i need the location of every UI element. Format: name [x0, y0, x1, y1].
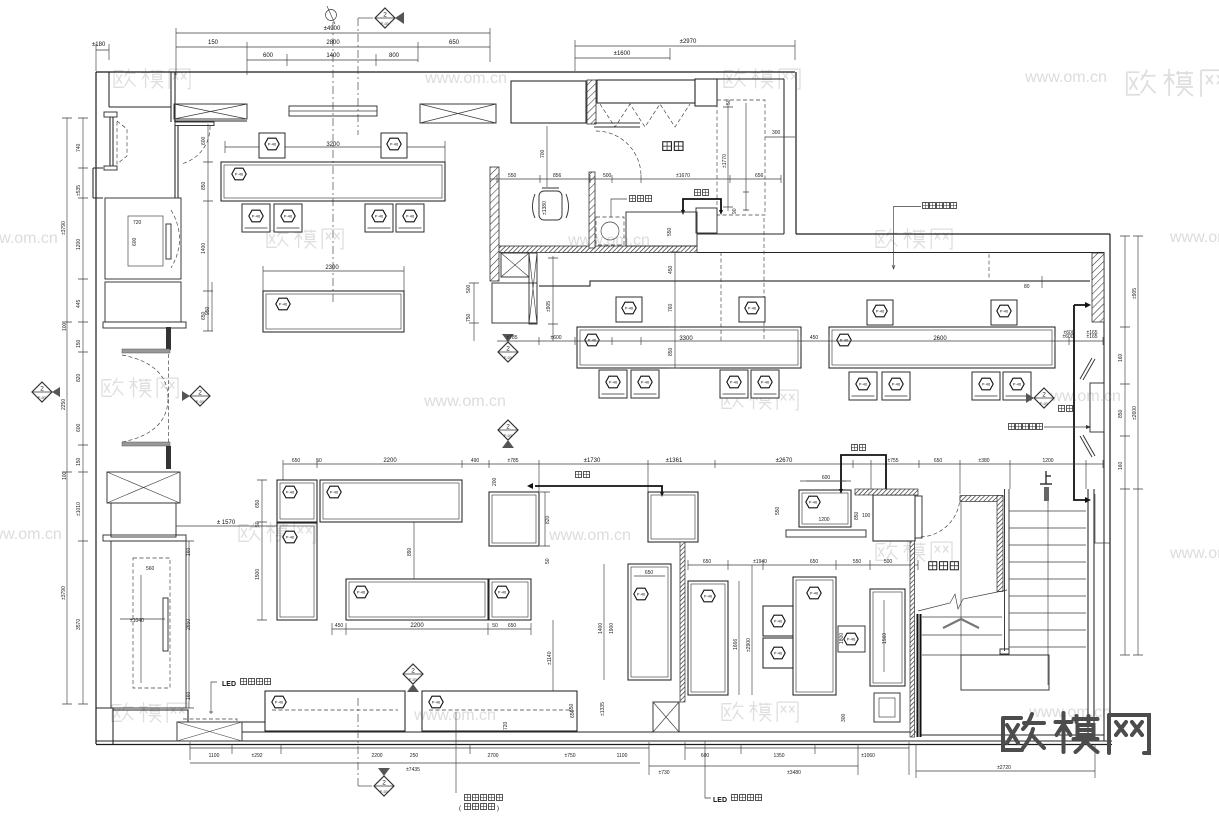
svg-text:±2970: ±2970 [680, 39, 697, 45]
storage room label [929, 562, 959, 570]
hexagon tag mid [276, 298, 290, 310]
svg-text:±3480: ±3480 [787, 770, 801, 776]
svg-text:650: 650 [292, 458, 301, 464]
mid display table [263, 291, 404, 332]
washbasin circle [601, 222, 619, 240]
svg-text:1400: 1400 [326, 53, 340, 59]
svg-text:720: 720 [133, 220, 142, 226]
label LED screen right [713, 795, 762, 805]
pilaster bar top-left [104, 112, 117, 117]
tall cabinet c3 [870, 589, 905, 686]
svg-text:www.om.cn: www.om.cn [0, 230, 58, 247]
svg-text:±3790: ±3790 [61, 221, 67, 235]
elevator door bar [166, 224, 171, 259]
svg-text:850: 850 [668, 347, 674, 356]
svg-text:100: 100 [62, 322, 68, 331]
counter under fitting [626, 212, 697, 246]
stair top hatch band [960, 496, 1003, 502]
chair below r1 b [274, 204, 302, 232]
svg-text:890: 890 [407, 547, 413, 556]
svg-text:±1730: ±1730 [584, 458, 601, 464]
svg-text:1100: 1100 [209, 753, 220, 759]
door jamb black lower [166, 446, 171, 469]
dim 3200 line [225, 141, 445, 162]
wall top outer [96, 71, 795, 73]
wall right-wing top outer [796, 233, 1110, 235]
svg-text:www.om.cn: www.om.cn [423, 393, 506, 410]
section marker bottom [358, 698, 394, 796]
svg-text:90: 90 [732, 208, 738, 214]
stair handrail [1000, 489, 1009, 654]
dashed tall display [133, 558, 170, 688]
X block bottom wall [177, 722, 242, 741]
svg-text:100: 100 [862, 513, 871, 519]
svg-text:560: 560 [146, 566, 155, 572]
svg-text:150: 150 [76, 339, 82, 348]
dim vertical fitting right [743, 103, 749, 211]
svg-text:±2670: ±2670 [776, 458, 793, 464]
wall fitting-room right outer [795, 72, 797, 234]
door leaf upper [122, 349, 170, 353]
cabinet lower plain [111, 503, 176, 537]
bracket arrow top [1085, 302, 1091, 308]
X column bottom [653, 702, 679, 732]
svg-text:100: 100 [62, 471, 68, 480]
stacked square s1 [763, 606, 793, 636]
svg-text:www.om.cn: www.om.cn [1169, 545, 1219, 562]
square display b6 [489, 579, 531, 620]
dim 820 rot [540, 492, 551, 546]
svg-text:445: 445 [76, 299, 82, 308]
svg-text:±1600: ±1600 [614, 51, 631, 57]
svg-text:): ) [497, 806, 499, 812]
svg-text:650: 650 [934, 458, 943, 464]
hexagon tag tableA [585, 334, 599, 346]
chair above r2 b [739, 297, 765, 322]
label xishuicao [630, 196, 652, 202]
dim 1560 rot [882, 600, 888, 672]
svg-text:±292: ±292 [251, 753, 262, 759]
svg-text:1400: 1400 [201, 243, 207, 254]
svg-text:800: 800 [389, 53, 400, 59]
wall left inner strip [110, 117, 113, 166]
chair above r1 a [259, 133, 285, 158]
hexagon tag left tall [634, 588, 648, 600]
chair above r2 c [867, 300, 893, 325]
dim 2900 rot [746, 565, 752, 695]
shelf diagonal lower [1080, 435, 1095, 457]
shelf below hatch [594, 123, 640, 127]
wall bottom inner [96, 740, 1112, 742]
marker diamond left1 [32, 382, 60, 402]
watermark ou-mo-wang row1 left [114, 68, 190, 89]
svg-text:2200: 2200 [383, 458, 397, 464]
direction chevron [943, 619, 979, 628]
dim row3 line [247, 54, 418, 66]
dim lineD y769 [649, 744, 858, 775]
svg-text:750: 750 [466, 313, 472, 322]
label jiugui right [852, 445, 866, 451]
cabinet ledge [103, 322, 186, 328]
section line top dashdot [357, 18, 359, 135]
big square cabinet [648, 492, 698, 542]
svg-text:50: 50 [726, 99, 732, 105]
cabinet P17 [799, 490, 851, 527]
svg-text:±755: ±755 [887, 458, 898, 464]
bracket arrows [681, 210, 723, 215]
wall left outer [95, 72, 97, 744]
svg-text:600: 600 [263, 53, 274, 59]
svg-text:850: 850 [854, 511, 860, 520]
svg-text:650: 650 [569, 703, 575, 712]
dim line y464 [283, 460, 1103, 494]
stair right rail [1088, 489, 1094, 740]
fitting dim vertical [723, 103, 733, 211]
svg-text:±2720: ±2720 [997, 765, 1011, 771]
square display b4 [489, 492, 539, 546]
svg-text:50: 50 [255, 521, 261, 527]
dim line x553 [548, 256, 558, 341]
break line [918, 590, 1007, 611]
svg-text:450: 450 [668, 265, 674, 274]
marker diamond mid 2 [498, 420, 518, 448]
centreline dashdot [332, 22, 334, 302]
chair below r2 e [849, 372, 877, 400]
label dengguang cabinet [1009, 424, 1043, 430]
chair above r2 d [991, 300, 1017, 325]
dim chain x1138 [1133, 236, 1143, 655]
wall bottom stair line [920, 734, 1104, 736]
svg-text:740: 740 [76, 143, 82, 152]
svg-text:550: 550 [853, 559, 862, 565]
svg-text:LED: LED [713, 797, 727, 804]
svg-text:1200: 1200 [818, 517, 829, 523]
svg-text:±7435: ±7435 [406, 767, 420, 773]
door leaf lower [122, 442, 170, 446]
svg-text:80: 80 [1024, 284, 1030, 290]
hexagon tag c2 [807, 587, 821, 599]
svg-text:490: 490 [471, 458, 480, 464]
svg-text:±785: ±785 [506, 335, 517, 341]
box P46 upper [277, 480, 317, 522]
chair below r2 d [751, 370, 779, 398]
chair below r2 c [720, 370, 748, 398]
storage closet [873, 495, 915, 541]
chain x67 [62, 118, 72, 704]
svg-text:www.om.cn: www.om.cn [0, 526, 62, 543]
stair treads lower left [922, 617, 1049, 655]
marker diamond B [403, 664, 423, 692]
svg-text:1900: 1900 [609, 623, 615, 634]
watermark ou-mo-wang row3 a [102, 377, 178, 398]
label xiegui [695, 190, 709, 196]
svg-text:650: 650 [508, 623, 517, 629]
svg-text:650: 650 [645, 570, 654, 576]
X column small [501, 253, 529, 277]
stair landing box [961, 655, 1049, 690]
svg-text:1800: 1800 [839, 633, 845, 644]
label display stand example [459, 795, 503, 813]
dim 650 in cabinet [634, 570, 665, 576]
wall fitting bottom edge [697, 233, 784, 235]
svg-text:160: 160 [1118, 461, 1124, 470]
dim chain x262 [257, 480, 267, 620]
svg-text:(: ( [459, 806, 461, 812]
svg-text:600: 600 [822, 475, 831, 481]
svg-text:650: 650 [449, 40, 460, 46]
svg-text:550: 550 [508, 173, 517, 179]
hexagon tag tableB [837, 334, 851, 346]
svg-text:3570: 3570 [76, 619, 82, 630]
door arc top-left entrance [181, 126, 210, 164]
tall cabinet c1 [688, 581, 728, 695]
dim 2300 line [263, 266, 404, 291]
svg-text:820: 820 [76, 373, 82, 382]
big logo ou-mo-wang [1003, 713, 1149, 753]
label huanxie room [663, 142, 683, 151]
svg-text:±785: ±785 [507, 458, 518, 464]
svg-text:300: 300 [772, 130, 781, 136]
hexagon tag b6 [495, 586, 509, 598]
dashed LED strip [183, 719, 237, 723]
leader display stand [455, 712, 457, 793]
svg-text:50: 50 [545, 558, 551, 564]
hexagon tag table1 [232, 168, 246, 180]
display table B [829, 327, 1055, 368]
X-cabinet upper [107, 472, 180, 503]
centreline symbol CL [326, 6, 337, 24]
dim 1140 rot [547, 620, 553, 691]
left dim chain x208 [203, 124, 213, 331]
X-block top 2 [420, 104, 496, 123]
watermark ou-mo-wang row2 a [267, 228, 343, 249]
svg-text:300: 300 [841, 713, 847, 722]
cabinet below elevator [105, 282, 181, 322]
wall display box [1090, 383, 1104, 432]
shelf top between [289, 106, 377, 116]
wall left inner upper [109, 72, 175, 122]
dashed opening marker [988, 254, 990, 280]
closet hatch top [855, 489, 918, 495]
long display b5 [346, 579, 488, 620]
dim 300 [765, 130, 795, 137]
wine cabinet bracket right [839, 455, 888, 494]
hatched wall column fitting left upper [587, 80, 596, 124]
hexagon tag b1 [283, 486, 297, 498]
dim row y341 [497, 337, 1103, 345]
dim vert x675 [670, 252, 680, 368]
svg-text:720: 720 [503, 721, 509, 730]
svg-text:±1361: ±1361 [666, 458, 683, 464]
marker diamond left2 [182, 386, 210, 406]
dashed vert x764 [763, 218, 765, 341]
chair below r2 h [1003, 372, 1031, 400]
long display b2 [320, 480, 462, 522]
svg-text:550: 550 [775, 506, 781, 515]
dim chain x474 [469, 283, 479, 341]
display table A [577, 327, 801, 368]
under-stair room edge [960, 500, 962, 655]
dashed vert x721 [720, 252, 722, 341]
label LED screen left [222, 679, 271, 689]
dim line inner cabinet [120, 575, 165, 683]
dim row y179 line [490, 175, 781, 183]
svg-text:±535: ±535 [76, 185, 82, 196]
watermark ou-mo-wang row4 a [239, 522, 315, 543]
dim 4900 line [176, 28, 490, 75]
watermark ou-mo-wang row1 c [724, 68, 800, 89]
chair below r1 a [242, 204, 270, 232]
wall fitting-room right inner [695, 79, 784, 234]
tall display b3 [277, 523, 317, 620]
thick display bracket L [1074, 305, 1085, 500]
svg-text:±1060: ±1060 [861, 753, 875, 759]
svg-text:±600: ±600 [1063, 330, 1074, 336]
chair below r2 a [599, 370, 627, 398]
svg-text:2700: 2700 [487, 753, 498, 759]
wall hall column strip [175, 125, 178, 198]
dim 950 vert [205, 282, 212, 331]
dim row2 line [176, 42, 490, 75]
svg-text:2800: 2800 [326, 40, 340, 46]
dim chain x189 [184, 541, 194, 708]
door jamb black upper [166, 327, 171, 350]
storage wall black line [918, 614, 921, 737]
hatched wall vertical left of corridor [490, 167, 499, 281]
chair below r2 b [631, 370, 659, 398]
bracket arrow bottom [1085, 497, 1091, 503]
svg-text:700: 700 [540, 149, 546, 158]
svg-text:600: 600 [201, 136, 207, 145]
corner room rect [492, 283, 537, 323]
svg-text:2600: 2600 [933, 336, 947, 342]
dim lineA y753 [190, 742, 649, 775]
dim 1570 line [176, 520, 277, 532]
svg-text:1560: 1560 [882, 633, 888, 644]
elevator inner box [128, 216, 163, 266]
big cabinet bottom-left [111, 541, 186, 708]
hanger zigzag dashed [600, 104, 690, 127]
shoe cabinet box [696, 208, 717, 233]
hexagon tag c1 [701, 590, 715, 602]
svg-text:1500: 1500 [255, 569, 261, 580]
LED counter 2 [422, 691, 577, 731]
hatched partition vertical [680, 542, 685, 702]
cabinet block at fitting corner [695, 79, 717, 106]
svg-text:±380: ±380 [978, 458, 989, 464]
door centre dashed [168, 354, 170, 443]
svg-text:160: 160 [1118, 353, 1124, 362]
svg-text:650: 650 [703, 559, 712, 565]
svg-text:±905: ±905 [1132, 288, 1138, 299]
stair treads [1009, 511, 1086, 647]
up label shang [1040, 471, 1052, 484]
stacked square s2 [763, 638, 793, 668]
chair below r1 c [365, 204, 393, 232]
chair below r2 f [882, 372, 910, 400]
cabinet elevator [105, 198, 181, 279]
LED counter 1 [265, 691, 405, 731]
leader fitness display [892, 207, 921, 270]
entry shelf bar [175, 122, 214, 126]
svg-text:850: 850 [201, 181, 207, 190]
svg-text:±4900: ±4900 [324, 26, 341, 32]
svg-text:656: 656 [755, 173, 764, 179]
shoe cabinet bracket [683, 199, 721, 210]
dim 180 left [92, 42, 109, 71]
svg-text:160: 160 [186, 691, 192, 700]
svg-text:500: 500 [884, 559, 893, 565]
label yijia [1059, 406, 1073, 412]
label fitness display cabinet [923, 203, 957, 209]
svg-text:± 1570: ± 1570 [217, 520, 236, 526]
svg-text:650: 650 [255, 499, 261, 508]
stair left rail hatch [997, 496, 1003, 592]
svg-text:±1140: ±1140 [547, 651, 553, 665]
svg-text:www.om.cn: www.om.cn [1169, 229, 1219, 246]
svg-text:±905: ±905 [546, 301, 552, 312]
wall bottom outer [96, 744, 1112, 746]
washbasin dashed [596, 217, 624, 245]
elevator door arc [171, 210, 180, 268]
dim 700 rot [540, 126, 547, 187]
svg-text:1100: 1100 [617, 753, 628, 759]
svg-text:2650: 2650 [186, 619, 192, 630]
up bar [1044, 487, 1049, 501]
svg-text:250: 250 [410, 753, 419, 759]
leader dengguang [1044, 425, 1091, 429]
closet door jamb [915, 496, 922, 538]
svg-text:2200: 2200 [371, 753, 382, 759]
storage left wall hatch [910, 541, 915, 737]
svg-text:450: 450 [335, 623, 344, 629]
svg-text:1666: 1666 [733, 639, 739, 650]
svg-text:±1940: ±1940 [753, 559, 767, 565]
dim lineE y771 [916, 744, 1095, 778]
watermark ou-mo-wang row2 b [876, 228, 952, 249]
watermark ou-mo-wang row4 b [876, 541, 952, 562]
watermark ou-mo-wang row5 a [112, 702, 188, 723]
svg-text:www.om.cn: www.om.cn [413, 707, 496, 724]
tall cabinet c2 [793, 577, 836, 695]
wall right-wing top inner [697, 252, 1104, 254]
chain x83 [78, 118, 88, 704]
X-block top 1 [174, 104, 247, 121]
svg-text:±1335: ±1335 [600, 702, 606, 716]
stair stringer [1047, 501, 1049, 685]
svg-text:www.om.cn: www.om.cn [548, 527, 631, 544]
marker diamond mid 1 [498, 334, 518, 362]
P17 dim 600 line fix [800, 480, 851, 482]
svg-text:850: 850 [1118, 409, 1124, 418]
wall right inner [1103, 252, 1105, 741]
svg-text:600: 600 [76, 423, 82, 432]
svg-text:±1010: ±1010 [76, 502, 82, 516]
hexagon tag p17 [806, 496, 820, 508]
wall bottom-left corner block [96, 708, 265, 744]
retail edge line upper [539, 281, 1090, 286]
cashier cabinet [511, 81, 586, 123]
svg-text:±1380: ±1380 [542, 201, 548, 215]
watermarks layer [0, 68, 1219, 724]
hatched wall column fitting left lower [589, 172, 595, 248]
svg-text:760: 760 [668, 303, 674, 312]
svg-text:450: 450 [810, 335, 819, 341]
dim lineB y753 [685, 742, 909, 775]
svg-text:±3790: ±3790 [61, 586, 67, 600]
svg-text:150: 150 [76, 457, 82, 466]
svg-text:±165: ±165 [1086, 330, 1097, 336]
